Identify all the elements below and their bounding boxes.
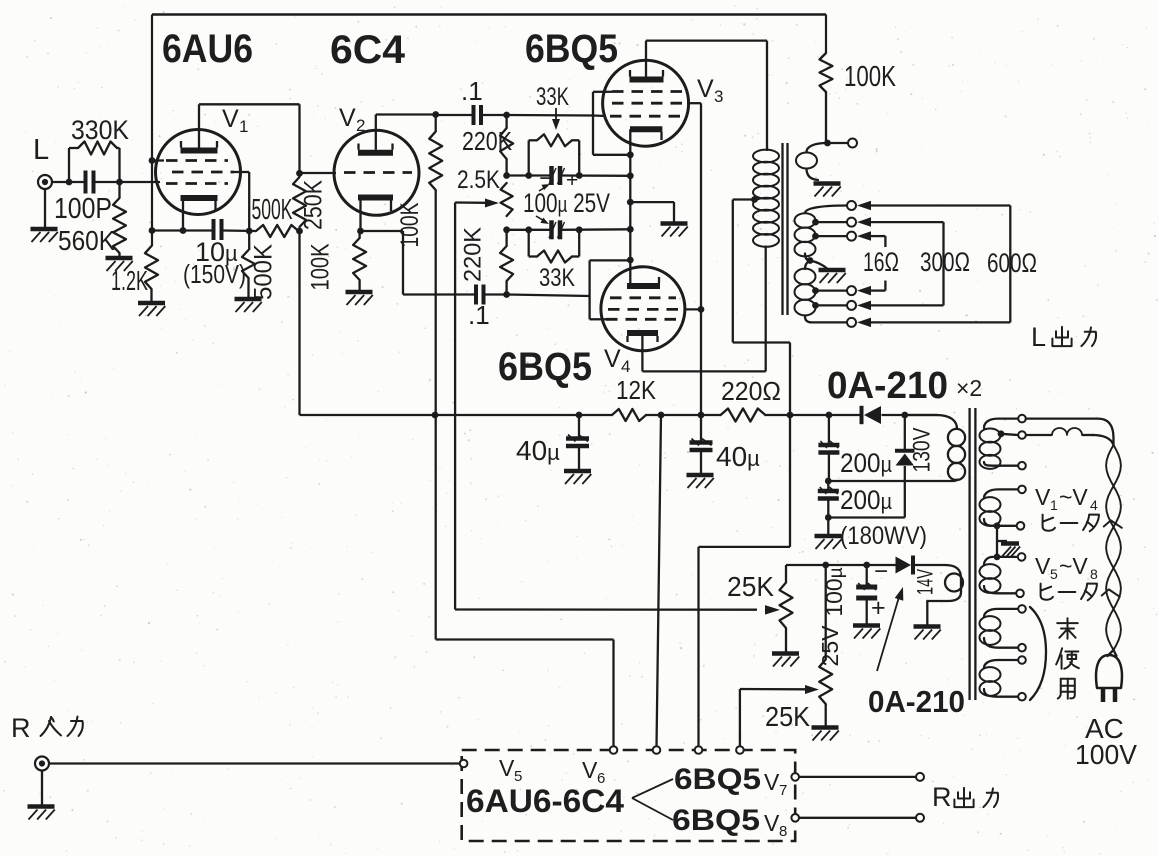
wire sec tap1 (816, 221, 848, 223)
arrow 0A-210 pointer (877, 597, 899, 671)
capacitor 100u 25V (866, 565, 868, 585)
node bias row1 left (503, 172, 510, 179)
svg-text:(150V): (150V) (183, 259, 246, 289)
svg-text:6AU6: 6AU6 (162, 27, 253, 71)
ground (cathode bus) (661, 221, 688, 226)
svg-text:2.5K: 2.5K (457, 166, 500, 194)
wire cathode ground stub (630, 201, 674, 203)
capacitor 200u lower (827, 481, 829, 490)
terminal PT B2 (1017, 522, 1025, 530)
node sec tap1 (812, 219, 819, 226)
terminal PT E1 (1018, 656, 1026, 664)
tube V4 envelope (601, 267, 685, 351)
svg-text:V: V (582, 757, 598, 783)
terminal PT D2 (1018, 644, 1026, 652)
node V1 cathode leg (180, 227, 187, 234)
wire B+ rail (300, 414, 613, 416)
svg-text:1: 1 (1050, 497, 1058, 513)
svg-text:4: 4 (621, 357, 630, 376)
wire B+ riser left (298, 231, 300, 415)
node cathode bus g3 V4 (627, 257, 634, 264)
svg-text:(180WV): (180WV) (840, 522, 927, 550)
terminal secondary tap1 (847, 201, 856, 210)
node sec tap2 (812, 233, 819, 240)
tube V2 cathode (358, 195, 393, 201)
node cathode bus ground stub (627, 199, 634, 206)
node rail feed1 (432, 412, 439, 419)
wire fuse lead (1026, 434, 1052, 436)
resistor 330K bypass loop (68, 148, 70, 182)
capacitor 100P (84, 171, 88, 194)
node 250K bottom (296, 228, 303, 235)
svg-text:1: 1 (239, 117, 248, 136)
input jack R (35, 757, 49, 771)
tube V4 anode (627, 330, 658, 336)
node row2 cap right (576, 226, 583, 233)
input jack L (38, 175, 52, 189)
node rail screen bus (698, 412, 705, 419)
fuse (1052, 428, 1082, 435)
wire sec mid ground lead (810, 261, 827, 269)
tube V2 envelope (334, 130, 419, 215)
tube V1 grid g2 row (172, 171, 234, 174)
wire AC cord strand A (1026, 419, 1114, 445)
svg-text:~V: ~V (1059, 484, 1088, 510)
node bias row 100u (822, 562, 829, 569)
wire OPT primary bottom lead (765, 246, 767, 372)
node V4 screen junction (698, 306, 705, 313)
capacitor 0.1 upper (472, 105, 476, 125)
wire V1 g2 riser (248, 172, 250, 231)
svg-text:V: V (697, 75, 714, 103)
terminal secondary tap3 (847, 232, 856, 241)
terminal R out V8 (916, 814, 924, 822)
tube V4 cathode top (627, 283, 660, 289)
node rail doubler right (901, 412, 908, 419)
tube V3 cathode (630, 126, 662, 132)
wire V1 anode lead (198, 104, 200, 147)
terminal secondary tap5 (847, 301, 856, 310)
terminal PT D1 (1018, 605, 1026, 613)
wire sec tap4 (816, 289, 848, 291)
node sec mid (807, 257, 814, 264)
capacitor 100u lower (549, 220, 554, 239)
svg-text:100K: 100K (307, 243, 335, 290)
node rail 40uA (576, 412, 583, 419)
arrow secondary tap4 (857, 286, 871, 296)
branch lines (632, 779, 673, 798)
node cathode bus g3 V3 (627, 151, 634, 158)
resistor 500K horizontal (256, 225, 299, 237)
node rail doubler left (826, 412, 833, 419)
wire PT C top lead (997, 556, 1018, 558)
svg-text:V: V (1035, 484, 1051, 510)
svg-text:.1: .1 (461, 76, 483, 106)
ground (secondary mid) (819, 268, 846, 273)
inductor OPT secondary upper (805, 206, 848, 214)
wire 25K second wiper drop (739, 689, 741, 747)
potentiometer 25K second (819, 660, 832, 705)
capacitor 40u B (700, 415, 702, 441)
arrow 2.5K wiper (455, 201, 486, 204)
svg-text:330K: 330K (71, 115, 129, 145)
wire V3 grid row (507, 114, 593, 117)
svg-text:V: V (764, 769, 780, 795)
svg-text:100K: 100K (844, 61, 896, 93)
resistor 220ohm (721, 409, 766, 422)
svg-text:220Ω: 220Ω (721, 376, 781, 406)
potentiometer 25K first (785, 565, 787, 583)
wire feedback bus left (151, 15, 153, 247)
wire PT tap A (1001, 434, 1018, 435)
node V1 plate load top (296, 170, 303, 177)
ground (input jack R) (28, 804, 55, 809)
ground (14V winding) (914, 624, 941, 629)
node bias row cap (863, 562, 870, 569)
svg-text:V: V (222, 105, 239, 133)
svg-text:×2: ×2 (956, 375, 982, 401)
wire PT heater center link (996, 526, 998, 557)
node OPT primary center tap (751, 196, 758, 203)
node doubler bottom (825, 514, 832, 521)
wire center tap to B+ (733, 198, 756, 200)
resistor 33K upper loop (528, 140, 530, 175)
svg-text:8: 8 (1090, 566, 1098, 582)
diode 0A-210 D3 (896, 557, 912, 574)
inductor 14V winding (927, 565, 961, 601)
box right channel (462, 750, 796, 841)
tube V3 envelope (603, 60, 689, 146)
wire bias chain (825, 565, 827, 660)
wire PT heater ground stub (997, 540, 1007, 542)
svg-text:6C4: 6C4 (330, 28, 406, 72)
tube V1 grid g1 row (166, 182, 228, 185)
node input/330K right (116, 179, 123, 186)
resistor 220K grid leak upper (505, 115, 507, 128)
tube V2 grid row (344, 171, 412, 174)
svg-text:6BQ5: 6BQ5 (674, 763, 761, 796)
svg-text:0A-210: 0A-210 (827, 365, 948, 407)
capacitor 10u 150V (212, 219, 216, 240)
svg-text:7: 7 (779, 782, 787, 799)
inductor OPT secondary top (807, 143, 828, 152)
terminal secondary tap6 (847, 318, 856, 327)
AC plug (1096, 655, 1122, 688)
terminal PT A tap (1018, 431, 1026, 439)
inductor 130V winding (948, 429, 965, 446)
resistor 500K vertical (248, 231, 250, 250)
diode 0A-210 D1 (860, 406, 864, 424)
inductor PT winding B (984, 489, 1018, 498)
resistor 12K (612, 409, 646, 421)
node row1 cap right (576, 172, 583, 179)
arrow secondary tap5 (857, 301, 871, 311)
terminal box input (460, 760, 468, 768)
svg-text:~V: ~V (1059, 553, 1088, 579)
svg-text:600Ω: 600Ω (987, 248, 1037, 278)
arrow 100u pointer up (539, 186, 547, 191)
wire doubler bottom row (828, 516, 905, 518)
potentiometer 2.5K (501, 183, 513, 216)
node bias row2 left (503, 226, 510, 233)
resistor 1.2K (145, 246, 158, 289)
wire OPT primary top lead (766, 41, 768, 151)
wire 14V ground lead (926, 601, 928, 625)
svg-text:100V: 100V (1075, 739, 1137, 770)
inductor OPT secondary lower (805, 261, 810, 270)
svg-text:6AU6-6C4: 6AU6-6C4 (466, 783, 624, 819)
ground (secondary top) (814, 181, 841, 186)
inductor PT winding E (984, 660, 1018, 668)
wire AC cord strand B (1092, 435, 1114, 445)
svg-text:100K: 100K (396, 202, 424, 247)
svg-text:5: 5 (1050, 566, 1058, 582)
core power transformer (968, 408, 970, 700)
inductor PT winding D (984, 609, 1018, 617)
node PT B bottom (994, 522, 1001, 529)
terminal box top 3 (695, 746, 703, 754)
svg-text:25K: 25K (727, 571, 774, 602)
svg-text:200µ: 200µ (840, 448, 892, 478)
wire sec tap5 (816, 304, 848, 306)
node row2 cap left (525, 226, 532, 233)
terminal PT A1 (1018, 415, 1026, 423)
node rail B+ tap (787, 412, 794, 419)
terminal box top 1 (610, 746, 618, 754)
resistor 560K (118, 182, 120, 198)
wire V2 cathode to coupling (361, 230, 404, 232)
tube V3 grid g3 row (612, 90, 682, 93)
svg-text:100µ 25V: 100µ 25V (523, 188, 610, 218)
ground (560K) (106, 256, 133, 261)
svg-text:V: V (339, 104, 356, 132)
resistor 100K feedback (825, 15, 827, 54)
svg-text:130V: 130V (909, 428, 936, 473)
node V2 cathode (357, 228, 364, 235)
svg-text:.1: .1 (468, 300, 490, 330)
terminal secondary tap4 (847, 286, 856, 295)
node PT tap A (998, 430, 1005, 437)
ground (40u B) (687, 473, 714, 478)
wire doubler mid row (828, 480, 948, 482)
core OPT (781, 143, 783, 315)
ground (25K second) (812, 725, 839, 730)
ground (heater center) (1001, 541, 1019, 546)
node feedback tap (824, 140, 831, 147)
wire 16ohm stub upper (871, 235, 885, 237)
svg-text:40µ: 40µ (716, 441, 760, 472)
svg-text:L: L (33, 134, 49, 166)
svg-text:0A-210: 0A-210 (868, 684, 965, 719)
wire wiper bus down (454, 203, 456, 610)
wire V4 g3 jog (588, 260, 590, 319)
svg-text:6BQ5: 6BQ5 (672, 804, 760, 837)
inductor 130V winding lead (905, 415, 957, 429)
node V2 plate (432, 111, 439, 118)
svg-text:V: V (499, 755, 515, 781)
svg-text:V: V (1035, 553, 1051, 579)
tube V1 anode (181, 148, 218, 154)
ground (1.2K) (138, 301, 165, 306)
svg-text:500K: 500K (250, 244, 278, 300)
svg-text:25V: 25V (817, 625, 843, 667)
wire feed1 to box (436, 638, 614, 640)
wire 300ohm loop (871, 221, 944, 223)
resistor 33K lower loop (528, 230, 530, 257)
inductor PT winding A (984, 419, 1018, 428)
wire bias row (786, 564, 896, 566)
ground (input jack L) (31, 227, 58, 232)
resistor 100K cathode V2 (358, 231, 360, 238)
tube V3 grid g1 row (610, 115, 682, 118)
terminal PT E2 (1018, 693, 1026, 701)
terminal secondary top (848, 139, 857, 148)
svg-text:6BQ5: 6BQ5 (498, 345, 592, 389)
wire V4 grid row (484, 293, 507, 295)
wire V3 g3 jog (593, 91, 604, 93)
capacitor 0.1 lower (474, 285, 478, 305)
node rail 12K right (658, 412, 665, 419)
node cathode bus row1 (627, 172, 634, 179)
resistor 250K plate load (293, 177, 306, 227)
arrow secondary tap6 (857, 318, 871, 328)
wire PT B bottom (993, 525, 1016, 527)
node input/330K left (66, 179, 73, 186)
svg-text:L: L (1031, 322, 1046, 352)
svg-text:33K: 33K (539, 264, 575, 292)
inductor PT winding C (984, 557, 993, 565)
terminal PT A2 (1018, 462, 1026, 470)
ground (25K first) (772, 651, 799, 656)
tube V3 grid g2 row (612, 102, 687, 105)
svg-text:8: 8 (779, 823, 787, 840)
node screen divider (246, 228, 253, 235)
ground (100u 25V) (853, 623, 880, 628)
svg-text:−: − (874, 558, 888, 585)
tube V1 envelope (156, 130, 241, 215)
wire jack L ground lead (44, 189, 46, 227)
wire input row (52, 181, 85, 183)
node cathode bus row2 (627, 226, 634, 233)
wire V2 anode lead (375, 115, 377, 150)
resistor 220K grid leak lower (505, 230, 507, 246)
svg-text:220K: 220K (460, 227, 487, 282)
tube V4 grid g3 row (606, 318, 676, 321)
svg-text:3: 3 (714, 87, 723, 106)
wire V4 anode lead (641, 336, 643, 371)
svg-text:100P: 100P (54, 193, 112, 225)
svg-text:R: R (932, 782, 952, 812)
terminal PT C2 (1016, 590, 1024, 598)
svg-text:+: + (871, 594, 886, 622)
node row1 cap left (525, 172, 532, 179)
wire sec row1 lead (861, 204, 871, 206)
svg-text:500K: 500K (252, 194, 293, 226)
wire 600ohm loop (871, 204, 1010, 206)
svg-text:16Ω: 16Ω (863, 247, 899, 277)
node V1 cathode junction (149, 227, 156, 234)
tube V1 cathode (181, 195, 218, 201)
ground (100K cathode V2) (346, 290, 373, 295)
tube V4 grid g2 row (608, 308, 684, 311)
label unused windings (1057, 618, 1078, 639)
capacitor 100u upper (549, 166, 554, 185)
terminal box top 4 (736, 746, 744, 754)
arrow 33K upper pointer (555, 108, 557, 122)
node sec tap5 (812, 302, 819, 309)
node PT C top (994, 554, 1001, 561)
svg-text:33K: 33K (536, 83, 569, 111)
node V4 grid (503, 291, 510, 298)
svg-text:200µ: 200µ (840, 485, 892, 515)
svg-text:6BQ5: 6BQ5 (525, 27, 618, 71)
terminal R out V7 (916, 773, 924, 781)
svg-text:V: V (604, 345, 621, 373)
brace unused windings (1030, 607, 1046, 700)
ground (500K vertical) (235, 297, 262, 302)
terminal box top 2 (653, 746, 661, 754)
svg-text:12K: 12K (616, 375, 657, 405)
terminal secondary tap2 (847, 218, 856, 227)
svg-text:300Ω: 300Ω (920, 247, 970, 277)
wire V1 cathode row (152, 229, 214, 231)
capacitor 40u A (578, 415, 580, 437)
arrow 25K second wiper (740, 688, 806, 691)
node feedback/screen g3 V1 (149, 157, 156, 164)
ground (doubler) (815, 534, 842, 539)
tube V1 grid g3 row (166, 159, 228, 162)
arrow 100u pointer down (536, 216, 546, 222)
wire R input (49, 762, 460, 764)
arrow secondary tap3 (857, 231, 871, 241)
wire feed3 to box (789, 415, 791, 547)
terminal box out V8 (791, 814, 799, 822)
wire bias row2 (507, 229, 553, 231)
svg-text:250K: 250K (300, 180, 328, 230)
svg-text:R: R (11, 713, 31, 743)
node doubler mid (825, 478, 832, 485)
inductor OPT primary (753, 150, 779, 163)
svg-text:25K: 25K (765, 701, 810, 732)
terminal PT C1 (1018, 553, 1026, 561)
node sec tap4 (812, 287, 819, 294)
wire sec tap2 (816, 235, 848, 237)
resistor 100K plate load V2 (435, 115, 437, 132)
wire V2 grid lead (300, 172, 337, 174)
svg-text:V: V (764, 810, 780, 836)
wire screen bus (700, 103, 702, 415)
svg-text:560K: 560K (58, 225, 115, 256)
diode 0A-210 D2 (896, 454, 915, 466)
wire bias row1 (507, 174, 553, 176)
svg-text:14V: 14V (913, 569, 938, 595)
wire R jack ground lead (41, 771, 43, 806)
svg-text:40µ: 40µ (516, 435, 560, 466)
tube V2 anode (358, 150, 393, 156)
arrow 25K first wiper (455, 608, 757, 611)
wire R output V8 (799, 817, 916, 819)
wire 16ohm stub lower (871, 289, 885, 291)
tube V3 anode (630, 77, 664, 83)
wire feedback terminal lead (828, 142, 849, 144)
wire V3/V4 cathode bus (629, 129, 631, 283)
capacitor 200u upper (828, 415, 830, 443)
wire R output V7 (799, 776, 916, 778)
tube V4 grid g1 row (610, 296, 676, 299)
wire V3 anode lead (645, 41, 647, 77)
terminal box out V7 (791, 773, 799, 781)
wire top feedback rail (152, 13, 826, 15)
